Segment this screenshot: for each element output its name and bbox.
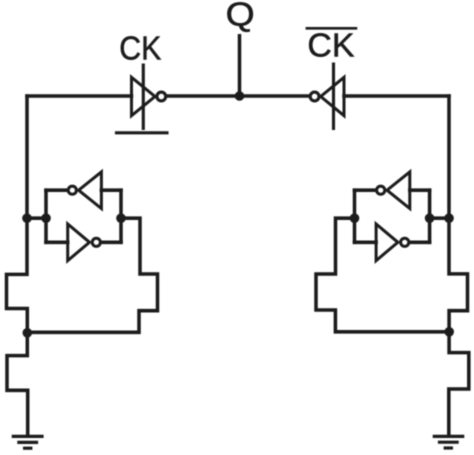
wire Q to right inverter input [240,94,309,98]
ground left [13,436,42,448]
inverter U3 bubble [68,186,76,194]
clocked inverter U2 input bubble [310,92,319,101]
clocked inverter U1 clock line [142,65,145,129]
junction dot right loop left rail [350,213,360,223]
clocked inverter U2 label CK-bar overline [307,27,356,30]
wire loop-right top path [355,188,430,192]
wire left outer vertical with bumps down to ground [7,96,28,435]
junction dot left outer [22,213,32,223]
wire right top horizontal [344,94,449,98]
inverter U4 (bottom, points right) triangle [68,224,90,261]
node Q junction dot [235,91,245,101]
wire right loop output with left bump [316,218,449,332]
wire loop-left top path [46,188,121,192]
wire stub right rail to outer [430,216,449,220]
junction dot left bottom [23,328,33,338]
junction dot right outer [444,213,454,223]
inverter U4 bubble [92,238,100,246]
clocked inverter U1 output bubble [157,92,166,101]
latch loop right: left rail [353,190,357,242]
clocked inverter U2 triangle [321,77,344,115]
clocked inverter U1 bottom clock bar [117,131,168,134]
wire right outer vertical with bumps down to ground [449,96,469,435]
ground right [434,436,462,448]
svg-text:CK: CK [119,29,161,66]
junction dot left rail [41,213,51,223]
wire loop-left bottom path [46,241,121,245]
junction dot left loop right rail [116,213,126,223]
inverter U6 (bottom, points right) triangle [376,224,398,261]
inverter U5 (top, points left) triangle [387,172,410,209]
wire left loop output with right bump [27,218,157,332]
svg-text:CK: CK [307,26,354,63]
clocked inverter U1 triangle [132,77,156,115]
clocked inverter U2 clock line [332,64,335,129]
junction dot right bottom [444,327,454,337]
inverter U6 bubble [401,238,409,246]
inverter U3 (top, points left) triangle [79,172,102,209]
wire loop-right bottom path [355,241,430,245]
latch loop left: right rail [119,190,123,242]
junction dot right loop right rail [425,213,435,223]
wire stub outer to left rail [27,216,46,220]
latch loop left: left rail [44,190,48,242]
latch loop right: right rail [428,190,432,242]
wire left top horizontal [27,94,132,98]
inverter U5 bubble [377,186,385,194]
wire Q vertical [238,36,242,96]
wire left inverter output to Q [167,94,240,98]
svg-text:Q: Q [226,0,255,32]
